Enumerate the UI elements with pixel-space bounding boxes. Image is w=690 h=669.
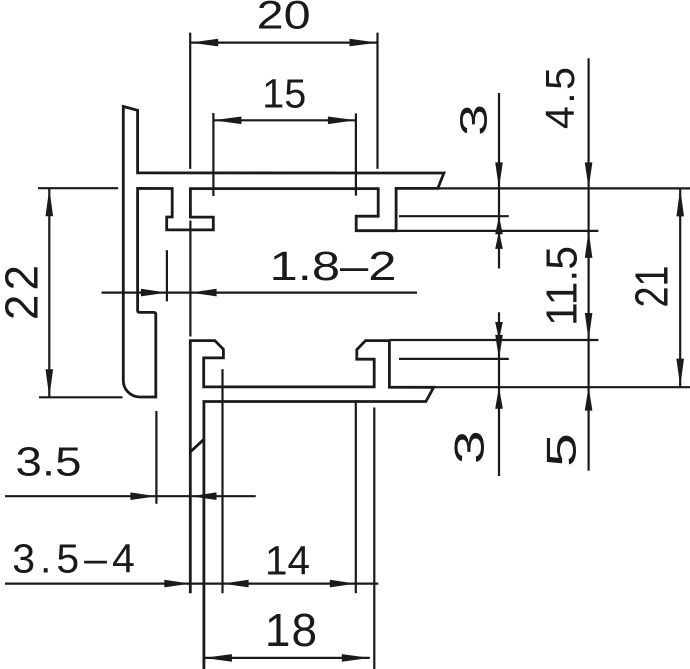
svg-text:14: 14 bbox=[265, 538, 310, 584]
ext x156.4 bbox=[155, 411, 157, 504]
svg-text:11.5: 11.5 bbox=[537, 246, 586, 326]
dim 22 ext bottom bbox=[39, 396, 123, 398]
profile A: top rail + left wall outline bbox=[123, 107, 444, 398]
arrowheads dim 15 bbox=[213, 117, 241, 125]
svg-text:20: 20 bbox=[257, 0, 311, 38]
svg-text:3: 3 bbox=[445, 430, 492, 464]
dim 3.5-4 / 14 line bbox=[5, 582, 378, 584]
svg-text:3.5–4: 3.5–4 bbox=[12, 536, 140, 582]
arrowheads dim 1.8-2 bbox=[141, 289, 167, 297]
dim 20 line bbox=[190, 41, 377, 43]
ext line y340 bbox=[389, 339, 598, 341]
dim 1.8-2 line bbox=[102, 292, 418, 294]
arrowheads dim 21 bbox=[676, 188, 684, 216]
dim 20 ext left bbox=[189, 33, 191, 169]
dim 22 line bbox=[48, 188, 50, 397]
ext line y230.9 bbox=[396, 230, 598, 232]
dim 15 ext left bbox=[212, 113, 214, 196]
dim 15 line bbox=[213, 119, 356, 121]
arrowheads dim 3.5 bbox=[130, 492, 156, 500]
dim 15 ext right bbox=[355, 113, 357, 195]
svg-text:21: 21 bbox=[626, 266, 678, 308]
arrowheads dim 20 bbox=[190, 39, 218, 47]
svg-text:15: 15 bbox=[262, 71, 306, 117]
ext x374.3 low bbox=[373, 408, 375, 669]
dim 18 line bbox=[204, 657, 370, 659]
svg-text:4.5: 4.5 bbox=[537, 65, 583, 130]
x588.6 bottom tail bbox=[587, 387, 589, 471]
ext line y358.9 bbox=[399, 358, 509, 360]
x499 lower seg bbox=[498, 312, 500, 387]
profile B: bottom rail + leg bbox=[190, 341, 433, 669]
arrowheads dim 22 bbox=[46, 188, 54, 216]
svg-text:3: 3 bbox=[454, 104, 496, 136]
arrowheads dim 18 bbox=[204, 654, 232, 662]
ext line y188.5 right bbox=[438, 187, 690, 189]
x499 tail mid bbox=[498, 216, 500, 268]
svg-text:22: 22 bbox=[0, 261, 48, 320]
dim 21 line bbox=[679, 189, 681, 387]
arrowheads dim 4.5/11.5/5 x588.6 bbox=[585, 162, 593, 188]
dim 3.5 line bbox=[5, 495, 256, 497]
ext x190.4 mid bbox=[189, 221, 191, 337]
svg-text:1.8–2: 1.8–2 bbox=[270, 243, 397, 289]
dim 3 top line bbox=[498, 93, 500, 216]
svg-text:18: 18 bbox=[265, 604, 318, 656]
dim 20 ext right bbox=[376, 33, 378, 169]
arrowheads dim 3.5-4 bbox=[164, 580, 190, 588]
ext tick x166.9 bbox=[166, 250, 168, 301]
ext line y216.2 bbox=[399, 215, 509, 217]
dim 22 ext top bbox=[38, 187, 118, 189]
arrowheads dim 3 top chain x499 bbox=[495, 162, 503, 188]
svg-text:5: 5 bbox=[538, 433, 585, 467]
ext x222.5 bbox=[221, 369, 223, 593]
arrowheads dim 14 bbox=[223, 580, 249, 588]
leg barb diagonal bbox=[191, 440, 204, 452]
dim 4.5/11.5/5 line x588.6 bbox=[587, 58, 589, 386]
svg-text:3.5: 3.5 bbox=[16, 439, 82, 485]
ext line y387.2 right bbox=[434, 386, 690, 388]
x499 bottom tail bbox=[498, 387, 500, 476]
ext x355.8 low bbox=[355, 402, 357, 594]
